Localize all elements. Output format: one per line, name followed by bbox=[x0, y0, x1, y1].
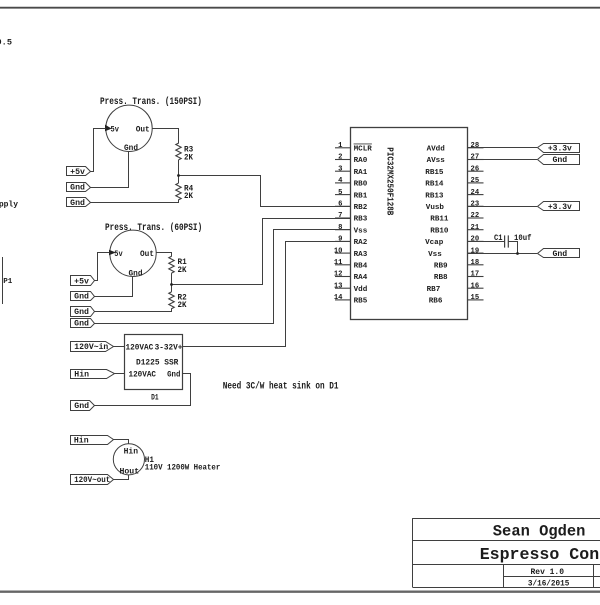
svg-text:21: 21 bbox=[471, 224, 480, 232]
svg-text:RB13: RB13 bbox=[425, 192, 444, 200]
svg-text:1: 1 bbox=[338, 142, 343, 150]
svg-text:PIC32MX250F128B: PIC32MX250F128B bbox=[385, 147, 395, 216]
svg-text:110V 1200W Heater: 110V 1200W Heater bbox=[145, 464, 221, 473]
svg-text:P1: P1 bbox=[3, 278, 13, 286]
svg-text:3: 3 bbox=[338, 165, 342, 173]
svg-text:11: 11 bbox=[334, 259, 343, 267]
svg-text:2K: 2K bbox=[178, 300, 188, 310]
svg-text:+5v: +5v bbox=[70, 168, 85, 177]
svg-text:MCLR: MCLR bbox=[354, 146, 373, 154]
svg-text:Gnd: Gnd bbox=[74, 308, 89, 317]
svg-text:Vdd: Vdd bbox=[354, 286, 368, 294]
svg-text:6: 6 bbox=[338, 201, 342, 209]
svg-text:Vss: Vss bbox=[428, 251, 442, 259]
svg-text:3/16/2015: 3/16/2015 bbox=[528, 579, 569, 589]
svg-text:20: 20 bbox=[471, 236, 480, 244]
svg-text:26: 26 bbox=[471, 165, 480, 173]
svg-text:AVdd: AVdd bbox=[427, 146, 446, 154]
svg-text:5v: 5v bbox=[114, 250, 123, 259]
svg-text:Press. Trans. (150PSI): Press. Trans. (150PSI) bbox=[100, 96, 202, 108]
svg-text:RB5: RB5 bbox=[354, 298, 368, 306]
svg-text:Hin: Hin bbox=[74, 371, 89, 380]
svg-text:Out: Out bbox=[140, 250, 154, 259]
svg-text:120VAC: 120VAC bbox=[126, 342, 154, 352]
svg-text:120VAC: 120VAC bbox=[129, 370, 157, 380]
svg-text:16: 16 bbox=[471, 282, 480, 290]
svg-text:RB4: RB4 bbox=[354, 263, 368, 271]
svg-text:Need 3C/W heat sink on D1: Need 3C/W heat sink on D1 bbox=[223, 381, 339, 393]
svg-text:9: 9 bbox=[338, 236, 342, 244]
svg-text:Gnd: Gnd bbox=[74, 402, 89, 411]
svg-text:RB1: RB1 bbox=[354, 192, 368, 200]
svg-text:120V~out: 120V~out bbox=[74, 476, 110, 485]
svg-text:RB6: RB6 bbox=[429, 298, 443, 306]
svg-text:5v: 5v bbox=[111, 125, 120, 134]
svg-text:Hout: Hout bbox=[120, 467, 140, 476]
svg-text:AVss: AVss bbox=[427, 157, 446, 165]
svg-text:RB3: RB3 bbox=[354, 216, 368, 224]
svg-text:Gnd: Gnd bbox=[124, 144, 138, 153]
svg-text:RB14: RB14 bbox=[425, 181, 444, 189]
svg-text:RA3: RA3 bbox=[354, 251, 368, 259]
svg-text:Gnd: Gnd bbox=[74, 320, 89, 329]
svg-text:18: 18 bbox=[471, 259, 480, 267]
svg-text:17: 17 bbox=[471, 271, 480, 279]
svg-text:25: 25 bbox=[471, 177, 480, 185]
svg-text:RB8: RB8 bbox=[434, 274, 448, 282]
svg-text:RB0: RB0 bbox=[354, 181, 368, 189]
svg-text:4: 4 bbox=[338, 177, 343, 185]
svg-text:RB15: RB15 bbox=[425, 169, 444, 177]
svg-text:3-32V+: 3-32V+ bbox=[155, 342, 183, 352]
svg-text:22: 22 bbox=[471, 212, 480, 220]
svg-text:Press. Trans. (60PSI): Press. Trans. (60PSI) bbox=[105, 222, 202, 234]
svg-text:RB10: RB10 bbox=[430, 227, 449, 235]
svg-text:2K: 2K bbox=[184, 191, 194, 201]
svg-text:Gnd: Gnd bbox=[74, 293, 89, 302]
svg-text:12: 12 bbox=[334, 271, 343, 279]
svg-text:8: 8 bbox=[338, 224, 342, 232]
svg-text:Gnd: Gnd bbox=[553, 250, 568, 259]
svg-text:Gnd: Gnd bbox=[553, 156, 568, 165]
svg-text:9.5: 9.5 bbox=[0, 37, 12, 47]
svg-text:D1: D1 bbox=[151, 394, 159, 403]
svg-text:+5v: +5v bbox=[74, 277, 89, 286]
svg-text:14: 14 bbox=[334, 294, 343, 302]
svg-text:23: 23 bbox=[471, 201, 480, 209]
svg-text:RB2: RB2 bbox=[354, 204, 368, 212]
svg-text:2: 2 bbox=[338, 154, 342, 162]
svg-text:+3.3v: +3.3v bbox=[548, 145, 572, 154]
svg-text:Vss: Vss bbox=[354, 227, 368, 235]
svg-text:27: 27 bbox=[471, 154, 480, 162]
svg-text:RB7: RB7 bbox=[427, 286, 441, 294]
svg-text:pply: pply bbox=[0, 201, 18, 210]
svg-text:24: 24 bbox=[471, 189, 480, 197]
svg-text:Vusb: Vusb bbox=[426, 204, 445, 212]
svg-text:10uf: 10uf bbox=[514, 234, 532, 243]
svg-text:RA1: RA1 bbox=[354, 169, 368, 177]
svg-text:5: 5 bbox=[338, 189, 342, 197]
svg-text:RA2: RA2 bbox=[354, 239, 368, 247]
svg-text:19: 19 bbox=[471, 247, 480, 255]
svg-text:Gnd: Gnd bbox=[70, 184, 85, 193]
svg-text:Gnd: Gnd bbox=[70, 199, 85, 208]
svg-text:2K: 2K bbox=[178, 265, 188, 275]
svg-text:Out: Out bbox=[136, 125, 150, 134]
svg-text:+3.3v: +3.3v bbox=[548, 203, 572, 212]
svg-text:Gnd: Gnd bbox=[129, 270, 143, 279]
svg-text:10: 10 bbox=[334, 247, 343, 255]
svg-text:Sean Ogden: Sean Ogden bbox=[493, 523, 586, 541]
svg-text:D1225 SSR: D1225 SSR bbox=[136, 357, 179, 367]
svg-text:Hin: Hin bbox=[74, 437, 89, 446]
svg-text:RA0: RA0 bbox=[354, 157, 368, 165]
svg-text:C1: C1 bbox=[494, 234, 503, 243]
svg-text:Hin: Hin bbox=[124, 447, 139, 456]
svg-text:Espresso Controller: Espresso Controller bbox=[480, 545, 600, 564]
svg-text:28: 28 bbox=[471, 142, 480, 150]
svg-text:15: 15 bbox=[471, 294, 480, 302]
svg-text:RA4: RA4 bbox=[354, 274, 368, 282]
svg-text:13: 13 bbox=[334, 282, 343, 290]
svg-text:RB9: RB9 bbox=[434, 263, 448, 271]
svg-text:7: 7 bbox=[338, 212, 342, 220]
svg-text:Gnd: Gnd bbox=[167, 370, 180, 380]
svg-text:2K: 2K bbox=[184, 152, 194, 162]
svg-text:120V~in: 120V~in bbox=[74, 343, 108, 352]
svg-text:RB11: RB11 bbox=[430, 216, 449, 224]
svg-text:Rev 1.0: Rev 1.0 bbox=[531, 568, 565, 577]
svg-text:Vcap: Vcap bbox=[425, 239, 444, 247]
